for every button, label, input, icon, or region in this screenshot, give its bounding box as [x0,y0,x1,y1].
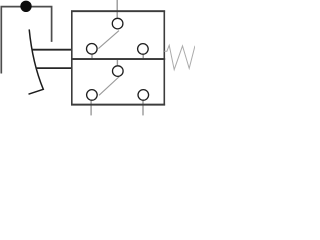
wire actuator bracket [1,7,51,74]
switch lever [29,29,44,94]
wire pole 2 [36,67,72,69]
contact circle pole2 common [113,66,124,77]
contact block 2 box [72,59,165,105]
top edge [71,10,165,12]
pin below left contact block 1 [91,55,93,59]
pin above top contact block 2 [116,60,118,66]
moving contact pole 2 [99,77,119,96]
pin below left contact block 2 [90,101,92,116]
contact circle pole2 right [138,90,149,101]
pushbutton knob (black dot) [20,1,31,12]
contact circle pole1 common [112,18,123,29]
wire pole 1 [32,49,72,51]
bottom edge [71,104,165,106]
spring [164,45,195,69]
moving contact pole 1 [98,31,119,49]
contact circle pole2 left [87,90,98,101]
divider edge [71,58,165,60]
contact circle pole1 right [138,44,149,55]
contact circle pole1 left [87,44,98,55]
pin below right contact block 1 [142,55,144,59]
pin below right contact block 2 [142,101,144,116]
contact block 1 box [72,11,165,59]
pin top of contact block 1 [116,0,118,18]
